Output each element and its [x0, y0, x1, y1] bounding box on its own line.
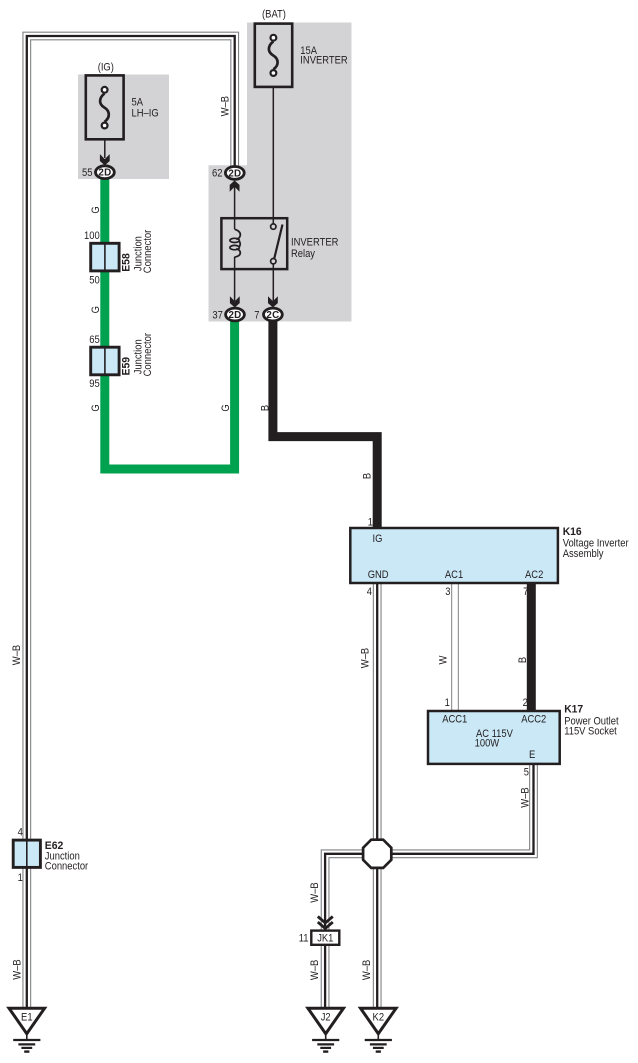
svg-text:65: 65	[89, 334, 100, 346]
label W-B left upper	[11, 645, 23, 665]
svg-text:E59: E59	[120, 357, 132, 376]
wire ground W-B: 62(2D) to E62/E1 (W-B)	[27, 36, 235, 1008]
svg-text:W–B: W–B	[11, 959, 23, 979]
label G 1	[90, 206, 102, 213]
svg-text:7: 7	[254, 309, 259, 321]
label B 7-2C	[259, 405, 271, 411]
svg-text:K17: K17	[564, 704, 583, 716]
svg-text:62: 62	[212, 168, 223, 180]
label W-B GND	[360, 648, 372, 668]
svg-text:GND: GND	[368, 569, 389, 581]
junction connector E59	[91, 347, 119, 375]
svg-text:Relay: Relay	[291, 248, 316, 260]
svg-text:2: 2	[523, 697, 528, 709]
svg-text:5A: 5A	[132, 96, 144, 108]
svg-text:50: 50	[89, 274, 100, 286]
svg-text:ACC1: ACC1	[442, 714, 467, 726]
connector 55 (2D)	[100, 154, 110, 165]
svg-text:G: G	[90, 206, 102, 213]
shaded block (BAT fuse / relay area)	[209, 23, 352, 322]
wire K16 AC1 pin3 to K17 ACC1 pin1 (W)	[451, 582, 459, 712]
label B AC2	[517, 657, 529, 663]
label B to K16	[362, 473, 374, 479]
shaded block (IG fuse area)	[78, 75, 169, 180]
junction connector E58	[91, 243, 119, 271]
svg-text:3: 3	[445, 586, 450, 598]
svg-text:W–B: W–B	[519, 787, 531, 807]
connector 7 (2C)	[268, 296, 278, 307]
svg-text:ACC2: ACC2	[521, 714, 546, 726]
wire K17 E pin5 to octagon (W-B)	[391, 763, 534, 854]
svg-text:IG: IG	[373, 533, 383, 545]
component JK1	[311, 931, 339, 945]
svg-text:INVERTER: INVERTER	[291, 237, 339, 249]
svg-text:W–B: W–B	[361, 960, 373, 980]
svg-text:115V Socket: 115V Socket	[564, 726, 617, 738]
fuse 5A LH-IG	[86, 75, 124, 139]
wire BAT fuse lead to relay switch	[272, 86, 274, 224]
relay switch blade	[274, 225, 283, 260]
label W-B K2	[361, 960, 373, 980]
svg-text:100: 100	[84, 230, 100, 242]
svg-text:1: 1	[445, 697, 450, 709]
svg-text:2D: 2D	[98, 168, 111, 179]
svg-text:100W: 100W	[475, 737, 500, 749]
svg-text:2D: 2D	[229, 310, 242, 321]
svg-text:4: 4	[18, 826, 23, 838]
svg-text:W–B: W–B	[360, 648, 372, 668]
svg-text:G: G	[90, 306, 102, 313]
svg-text:G: G	[90, 404, 102, 411]
wire B: 7(2C) to K16 pin1 IG	[273, 321, 377, 530]
connector 62 (2D)	[230, 181, 240, 192]
svg-text:Connector: Connector	[45, 861, 89, 873]
svg-text:W–B: W–B	[219, 96, 231, 116]
svg-text:W–B: W–B	[309, 960, 321, 980]
fuse 15A INVERTER	[255, 24, 292, 87]
wire octagon to JK1 to J2 (W-B)	[325, 854, 364, 1009]
wire K16 GND pin4 through octagon to K2 (W-B)	[373, 582, 382, 1009]
label W AC1	[438, 655, 450, 665]
wire B: K16 AC2 pin7 to K17 ACC2 pin2	[527, 582, 536, 712]
svg-text:Connector: Connector	[142, 333, 154, 377]
svg-text:55: 55	[82, 167, 93, 179]
svg-text:5: 5	[524, 767, 529, 779]
svg-text:W–B: W–B	[309, 882, 321, 902]
svg-text:1: 1	[368, 517, 373, 529]
svg-text:4: 4	[367, 586, 372, 598]
svg-text:B: B	[362, 473, 374, 479]
svg-text:AC2: AC2	[525, 569, 543, 581]
label G 3	[90, 404, 102, 411]
label G right	[220, 404, 232, 411]
svg-text:W: W	[438, 655, 450, 665]
relay coil	[235, 229, 241, 239]
svg-text:AC1: AC1	[445, 569, 463, 581]
double chevron arrow above JK1	[318, 917, 333, 929]
label W-B JK1 lower	[309, 960, 321, 980]
svg-text:2C: 2C	[266, 310, 279, 321]
svg-text:11: 11	[299, 932, 309, 944]
svg-text:95: 95	[89, 378, 100, 390]
svg-text:1: 1	[18, 872, 23, 884]
wire relay coil leads	[234, 186, 236, 229]
svg-text:E1: E1	[21, 1012, 33, 1024]
label W-B E	[519, 787, 531, 807]
svg-text:W–B: W–B	[11, 645, 23, 665]
ground E1	[9, 1008, 45, 1033]
connector 37 (2D)	[230, 296, 240, 307]
component K16 Voltage Inverter Assembly	[350, 528, 558, 583]
svg-text:JK1: JK1	[317, 933, 333, 945]
svg-text:E: E	[529, 749, 535, 761]
svg-text:Connector: Connector	[142, 229, 154, 273]
label G 2	[90, 306, 102, 313]
svg-text:K2: K2	[373, 1012, 385, 1024]
svg-text:(BAT): (BAT)	[262, 8, 286, 20]
ground J2	[308, 1008, 344, 1033]
relay INVERTER Relay	[221, 218, 287, 269]
svg-text:B: B	[517, 657, 529, 663]
svg-text:G: G	[220, 404, 232, 411]
ground K2	[361, 1008, 397, 1033]
label W-B left lower	[11, 959, 23, 979]
junction connector E62	[13, 840, 40, 867]
label W-B top	[219, 96, 231, 116]
wire G: 55(2D) down, across, up to 37(2D)	[105, 178, 235, 469]
component K17 Power Outlet 115V Socket	[428, 711, 560, 764]
svg-text:INVERTER: INVERTER	[300, 55, 348, 67]
svg-text:B: B	[259, 405, 271, 411]
svg-text:2D: 2D	[228, 168, 241, 179]
node: octagon splice junction	[363, 840, 391, 868]
svg-text:37: 37	[212, 309, 223, 321]
svg-text:K16: K16	[563, 526, 582, 538]
svg-text:(IG): (IG)	[98, 62, 114, 74]
svg-text:J2: J2	[321, 1012, 331, 1024]
svg-text:LH–IG: LH–IG	[132, 108, 159, 120]
wire IG fuse lead	[104, 139, 106, 158]
svg-text:7: 7	[523, 586, 528, 598]
label W-B JK1 upper	[309, 882, 321, 902]
svg-text:E58: E58	[120, 253, 132, 272]
svg-text:Assembly: Assembly	[563, 548, 604, 560]
